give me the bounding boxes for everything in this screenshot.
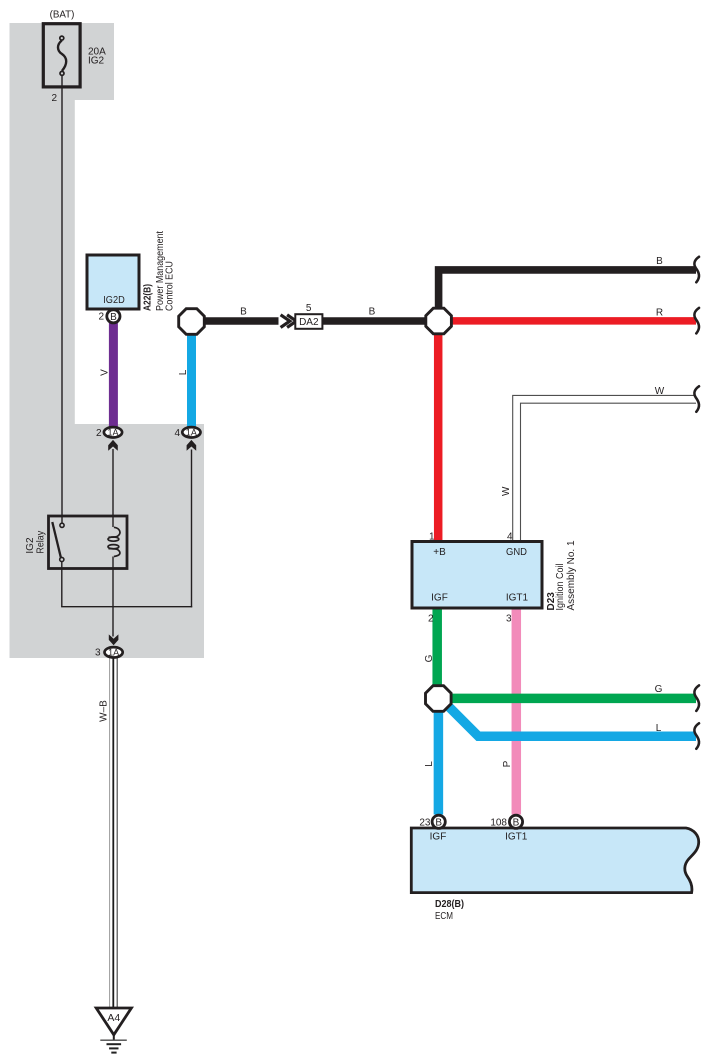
break curl G xyxy=(694,685,699,711)
svg-text:2: 2 xyxy=(51,93,57,104)
wire B black from junction to DA2 xyxy=(205,317,279,325)
ECM pin B circle 23 xyxy=(432,815,445,828)
svg-text:DA2: DA2 xyxy=(299,317,319,328)
connector oval 1A pin 4 xyxy=(182,427,200,451)
wire G green from IGF down xyxy=(432,607,442,686)
svg-text:+B: +B xyxy=(433,547,446,558)
ground A4 xyxy=(96,1008,131,1053)
wire riser to connector 1A pin 4 xyxy=(191,450,193,608)
wire relay coil top to connector 1A pin 2 xyxy=(112,449,114,527)
svg-text:4: 4 xyxy=(507,532,513,543)
svg-text:3: 3 xyxy=(95,648,101,659)
svg-text:A22(B): A22(B) xyxy=(142,284,153,311)
svg-text:W: W xyxy=(501,486,512,496)
break curl R xyxy=(694,308,699,334)
ignition coil block D23 xyxy=(412,542,542,609)
relay switch contacts xyxy=(52,522,61,557)
svg-text:B: B xyxy=(435,818,442,829)
svg-text:1A: 1A xyxy=(186,428,197,438)
wire B black from DA2 to junction xyxy=(322,317,427,325)
junction octagon at DA2 wire xyxy=(179,309,205,335)
svg-text:2: 2 xyxy=(428,614,434,625)
wire horizontal relay to riser xyxy=(61,606,192,608)
junction octagon green/blue xyxy=(426,686,452,712)
wire fuse to relay switch xyxy=(61,76,63,524)
wire V purple from IG2D pin B to 1A pin 2 xyxy=(109,322,118,427)
wire W-B from 1A pin3 to ground A4 xyxy=(110,658,118,1008)
svg-text:R: R xyxy=(656,308,663,319)
break curl B xyxy=(694,257,699,283)
wire relay coil bottom to connector 1A pin 3 xyxy=(112,557,114,637)
ECM pin B circle 108 xyxy=(509,815,522,828)
junction octagon black/red xyxy=(426,308,452,334)
svg-text:108: 108 xyxy=(490,817,507,828)
svg-text:2: 2 xyxy=(96,428,102,439)
svg-text:W–B: W–B xyxy=(99,700,110,722)
break curl W xyxy=(694,386,699,412)
svg-text:G: G xyxy=(424,654,435,662)
ECM block D28(B) xyxy=(411,828,698,893)
svg-text:IG2D: IG2D xyxy=(103,294,125,306)
svg-text:3: 3 xyxy=(506,614,512,625)
svg-text:GND: GND xyxy=(506,547,527,558)
svg-text:5: 5 xyxy=(306,303,312,314)
svg-text:L: L xyxy=(424,761,435,767)
chevron arrows into DA2 xyxy=(281,315,290,328)
relay IG2 box xyxy=(49,516,128,569)
svg-text:23: 23 xyxy=(419,817,431,828)
svg-text:B: B xyxy=(513,818,520,829)
svg-text:V: V xyxy=(100,369,111,376)
wire R red vertical to ignition coil +B xyxy=(434,334,443,542)
wire P pink from IGT1 to ECM xyxy=(512,607,522,815)
svg-text:D28(B): D28(B) xyxy=(435,899,464,910)
svg-text:Ignition Coil: Ignition Coil xyxy=(555,564,566,611)
gray harness region xyxy=(10,23,205,658)
wire relay switch bottom down xyxy=(61,562,63,607)
svg-text:IGT1: IGT1 xyxy=(506,592,529,603)
svg-text:4: 4 xyxy=(174,428,180,439)
wire B black top to right edge xyxy=(439,270,696,308)
svg-text:Control ECU: Control ECU xyxy=(165,261,176,311)
svg-text:L: L xyxy=(178,369,189,375)
break curl L xyxy=(694,723,699,749)
svg-text:Relay: Relay xyxy=(36,531,47,554)
svg-text:1: 1 xyxy=(429,532,435,543)
wire L blue from junction to 1A pin 4 xyxy=(187,333,196,427)
IG2D block of A22(B) ECU xyxy=(87,255,139,309)
svg-text:Assembly No. 1: Assembly No. 1 xyxy=(566,540,577,610)
svg-text:B: B xyxy=(110,312,117,323)
svg-text:1A: 1A xyxy=(107,428,118,438)
svg-text:B: B xyxy=(240,307,247,318)
wire R red to right edge xyxy=(452,317,697,325)
wire G green horizontal to right edge xyxy=(451,694,696,704)
svg-text:IGF: IGF xyxy=(430,832,447,843)
svg-text:IGF: IGF xyxy=(431,592,448,603)
wire L blue vertical to ECM IGF xyxy=(434,711,444,815)
svg-text:L: L xyxy=(656,723,662,734)
svg-text:G: G xyxy=(655,684,663,695)
svg-text:ECM: ECM xyxy=(435,911,453,922)
svg-text:IG2: IG2 xyxy=(88,56,105,67)
svg-text:2: 2 xyxy=(98,312,104,323)
svg-text:B: B xyxy=(369,307,376,318)
svg-text:IG2: IG2 xyxy=(25,537,36,554)
svg-text:IGT1: IGT1 xyxy=(505,832,528,843)
svg-text:A4: A4 xyxy=(107,1012,120,1024)
DA2 junction box xyxy=(295,314,322,329)
fuse 20A IG2 xyxy=(43,24,80,87)
pin B circle xyxy=(107,310,120,323)
connector oval 1A pin 3 xyxy=(105,634,123,657)
connector oval 1A pin 2 xyxy=(104,427,122,451)
wire L blue diagonal and horizontal to right edge xyxy=(447,705,696,736)
svg-text:(BAT): (BAT) xyxy=(50,9,75,21)
svg-text:B: B xyxy=(656,256,663,267)
wire W white to GND pin xyxy=(517,399,697,542)
svg-text:W: W xyxy=(655,386,665,397)
svg-text:1A: 1A xyxy=(108,648,119,658)
svg-text:P: P xyxy=(502,760,513,767)
relay coil xyxy=(108,527,120,556)
